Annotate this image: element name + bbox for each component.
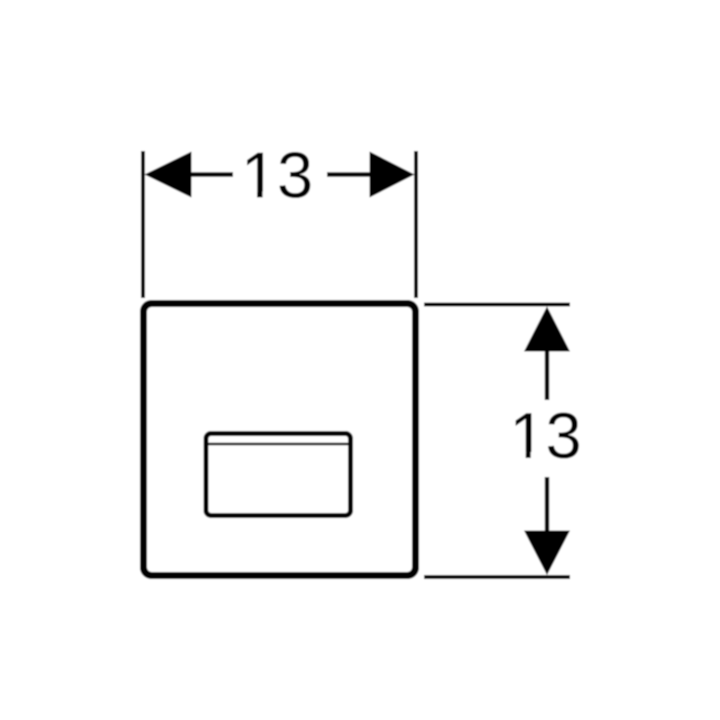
dimension line horizontal right segment	[327, 172, 371, 176]
svg-text:13: 13	[509, 399, 581, 472]
arrow left	[145, 152, 192, 198]
dimension line vertical upper segment	[545, 350, 549, 400]
arrow right	[370, 152, 415, 198]
button outline	[206, 434, 351, 516]
dimension line horizontal left segment	[190, 172, 233, 176]
dimension line vertical lower segment	[545, 477, 549, 532]
arrow up	[524, 307, 570, 352]
svg-text:13: 13	[241, 139, 313, 212]
extension line left	[141, 151, 145, 298]
arrow down	[524, 531, 570, 576]
extension line bottom (right dim)	[424, 575, 570, 579]
extension line top (right dim)	[424, 303, 570, 307]
extension line right	[414, 151, 418, 298]
plate outline	[144, 304, 416, 576]
button inner line	[209, 443, 349, 446]
